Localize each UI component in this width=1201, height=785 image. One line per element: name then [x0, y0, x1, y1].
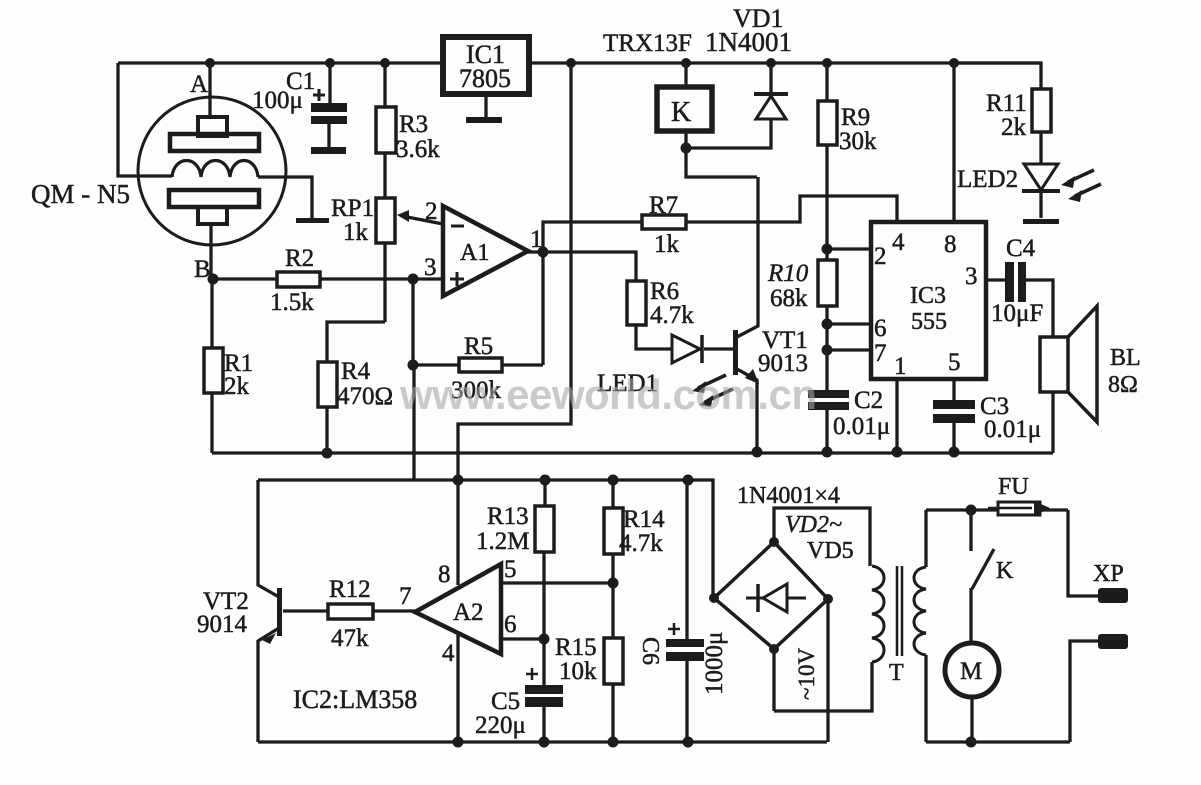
svg-text:1N4001: 1N4001 — [705, 27, 792, 57]
svg-text:1.2M: 1.2M — [476, 528, 529, 555]
svg-text:3.6k: 3.6k — [396, 136, 440, 163]
svg-text:1k: 1k — [654, 231, 680, 258]
svg-text:A1: A1 — [460, 240, 489, 266]
svg-text:R4: R4 — [341, 358, 371, 385]
svg-text:9014: 9014 — [197, 611, 248, 638]
svg-text:RP1: RP1 — [331, 195, 374, 222]
svg-text:2k: 2k — [224, 373, 250, 400]
svg-text:100μ: 100μ — [252, 87, 303, 114]
svg-text:1: 1 — [894, 353, 907, 380]
svg-text:3: 3 — [965, 263, 978, 290]
svg-text:A: A — [190, 71, 208, 98]
svg-text:3: 3 — [424, 254, 437, 281]
svg-text:7: 7 — [874, 340, 887, 367]
svg-text:~10V: ~10V — [794, 648, 819, 700]
svg-text:6: 6 — [874, 315, 887, 342]
svg-text:R2: R2 — [285, 245, 314, 272]
svg-text:BL: BL — [1110, 345, 1141, 371]
svg-text:IC3: IC3 — [910, 283, 946, 309]
svg-text:TRX13F: TRX13F — [603, 30, 692, 57]
svg-text:0.01μ: 0.01μ — [984, 416, 1041, 443]
svg-text:R14: R14 — [623, 506, 665, 533]
svg-text:1: 1 — [530, 226, 543, 253]
svg-text:8Ω: 8Ω — [1108, 372, 1138, 398]
svg-text:4.7k: 4.7k — [619, 530, 663, 557]
svg-text:XP: XP — [1093, 561, 1124, 587]
svg-text:4.7k: 4.7k — [650, 302, 694, 329]
svg-text:A2: A2 — [453, 599, 484, 626]
svg-text:C5: C5 — [491, 688, 520, 715]
svg-text:1k: 1k — [343, 219, 369, 246]
svg-text:1N4001×4: 1N4001×4 — [737, 483, 840, 509]
svg-text:C4: C4 — [1006, 235, 1036, 262]
svg-text:R3: R3 — [399, 111, 428, 138]
svg-text:470Ω: 470Ω — [337, 383, 393, 410]
svg-text:R9: R9 — [841, 104, 870, 131]
svg-text:R6: R6 — [650, 278, 679, 305]
svg-text:R11: R11 — [986, 90, 1027, 117]
svg-text:30k: 30k — [839, 128, 877, 155]
svg-text:2k: 2k — [1001, 114, 1027, 141]
svg-text:2: 2 — [874, 243, 887, 270]
svg-text:C2: C2 — [854, 387, 883, 414]
svg-text:K: K — [996, 558, 1014, 584]
svg-text:www.eeworld.com.cn: www.eeworld.com.cn — [399, 371, 817, 418]
svg-text:R7: R7 — [649, 192, 678, 219]
svg-text:IC2:LM358: IC2:LM358 — [293, 685, 417, 714]
svg-text:555: 555 — [911, 309, 947, 335]
svg-text:10μF: 10μF — [991, 300, 1043, 327]
svg-text:6: 6 — [504, 611, 517, 638]
svg-text:VD2~: VD2~ — [785, 512, 842, 538]
svg-text:R10: R10 — [767, 260, 809, 287]
svg-text:68k: 68k — [770, 285, 808, 312]
svg-text:QM - N5: QM - N5 — [31, 179, 130, 209]
svg-text:4: 4 — [442, 640, 455, 667]
svg-text:B: B — [194, 256, 211, 283]
svg-text:R15: R15 — [555, 634, 597, 661]
svg-text:FU: FU — [998, 474, 1029, 500]
svg-text:5: 5 — [948, 349, 961, 376]
svg-text:R13: R13 — [487, 503, 529, 530]
svg-text:R5: R5 — [464, 333, 493, 360]
svg-text:10k: 10k — [559, 658, 597, 685]
svg-text:LED2: LED2 — [957, 166, 1018, 193]
svg-text:4: 4 — [892, 229, 905, 256]
svg-text:M: M — [960, 658, 982, 685]
svg-text:VD5: VD5 — [807, 538, 854, 564]
svg-text:8: 8 — [438, 561, 451, 588]
svg-text:C6: C6 — [637, 637, 663, 665]
svg-text:1000μ: 1000μ — [701, 632, 728, 695]
svg-text:5: 5 — [504, 556, 517, 583]
svg-text:47k: 47k — [331, 625, 369, 652]
svg-text:K: K — [671, 97, 691, 128]
svg-text:220μ: 220μ — [475, 712, 526, 739]
svg-text:8: 8 — [944, 231, 957, 258]
svg-text:7805: 7805 — [459, 64, 511, 93]
svg-text:T: T — [889, 660, 904, 686]
svg-text:R12: R12 — [329, 576, 371, 603]
svg-text:7: 7 — [399, 583, 412, 610]
svg-text:0.01μ: 0.01μ — [833, 413, 890, 440]
svg-text:2: 2 — [425, 198, 438, 225]
svg-text:1.5k: 1.5k — [270, 289, 314, 316]
